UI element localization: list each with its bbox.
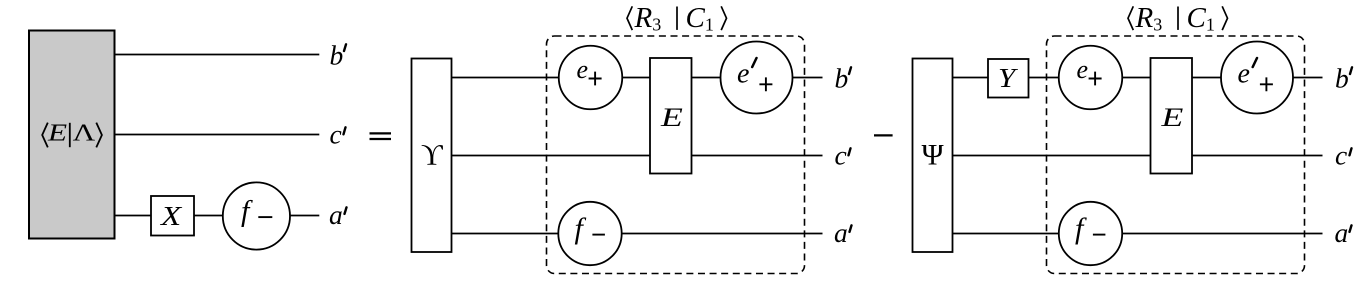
svg-text:a: a [834,217,848,248]
svg-text:b: b [330,40,344,71]
wire c' (right) [953,155,1323,157]
wire c' (mid) [452,155,823,157]
label ⟨E|Λ⟩ [42,123,102,148]
wire b' (right, segment 4) [1192,77,1221,79]
gate E (mid box) [650,58,692,174]
tensor box E-Lambda (gray) [29,31,115,239]
wire b' (right, segment 5) [1293,77,1323,79]
wire a' (left, segment 2) [194,215,223,217]
label ⟨R3|C1⟩ (mid) [627,6,727,30]
svg-text:c: c [1335,139,1347,170]
svg-text:e: e [737,59,749,90]
svg-text:e: e [1238,59,1250,90]
svg-text:e: e [1077,55,1089,84]
label ⟨R3|C1⟩ (right) [1128,6,1228,30]
wire b' (right, segment 3) [1122,77,1150,79]
wire b' (right, segment 2) [1029,77,1059,79]
wire a' (left, segment 1) [115,215,152,217]
gate e'+ (right circle) [1221,42,1293,114]
svg-text:e: e [577,55,589,84]
dashed group box (mid) [547,36,805,274]
gate Y [988,59,1029,98]
svg-text:b: b [835,63,849,94]
svg-text:b: b [1335,63,1349,94]
gate e+ (mid circle) [559,46,623,110]
gate E (right box) [1151,58,1193,174]
svg-text:c: c [835,139,847,170]
svg-text:Y: Y [998,64,1018,94]
svg-text:E: E [47,120,67,147]
wire b' (right, segment 1) [953,77,989,79]
svg-text:X: X [159,201,183,232]
wire a' (mid, segment 2) [622,233,823,235]
wire b' (mid, segment 4) [793,77,823,79]
svg-text:E: E [1160,102,1183,131]
svg-text:ϒ: ϒ [421,138,443,171]
tensor box Psi [913,59,953,253]
wire a' (right, segment 2) [1122,233,1322,235]
gate f- (mid circle) [558,202,621,265]
equals sign [370,132,392,134]
svg-text:Ψ: Ψ [922,138,945,171]
svg-text:a: a [329,199,343,230]
gate e'+ (mid circle) [721,42,793,114]
dashed group box (right) [1047,36,1305,274]
gate X [151,196,194,236]
svg-text:Λ: Λ [73,120,96,147]
wire b' (mid, segment 1) [452,77,559,79]
tensor box Upsilon [412,59,452,253]
wire b' (mid, segment 3) [692,77,721,79]
svg-text:c: c [330,118,342,149]
gate f- (circle) [223,182,290,249]
svg-text:a: a [1335,217,1349,248]
wire a' (left, segment 3) [290,215,319,217]
gate f- (right circle) [1059,202,1122,265]
wire a' (mid, segment 1) [452,233,559,235]
wire b' (mid, segment 2) [622,77,650,79]
minus sign [874,134,893,136]
wire c' (left) [115,134,320,136]
wire a' (right, segment 1) [953,233,1059,235]
svg-text:E: E [660,102,683,131]
wire b' (left) [115,54,320,56]
gate e+ (right circle) [1059,46,1123,110]
